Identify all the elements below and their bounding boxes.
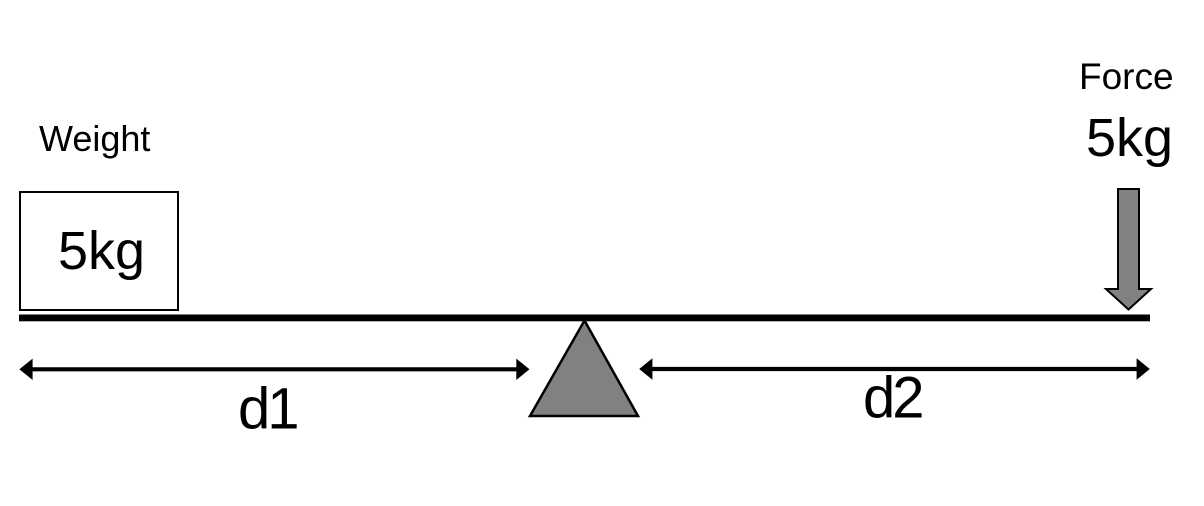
svg-text:d1: d1 [238, 376, 297, 441]
dimension arrow d1 (double headed) [19, 359, 529, 380]
fulcrum triangle [530, 321, 638, 417]
svg-text:d2: d2 [863, 366, 922, 431]
dimension arrow d2 (double headed) [639, 358, 1150, 379]
force arrow (gray block arrow pointing down) [1106, 189, 1151, 310]
lever beam [19, 315, 1150, 322]
svg-text:Weight: Weight [39, 118, 150, 159]
svg-text:5kg: 5kg [1086, 108, 1173, 168]
svg-text:Force: Force [1079, 56, 1174, 97]
svg-text:5kg: 5kg [58, 221, 145, 281]
weight box (5kg mass) [20, 192, 178, 310]
